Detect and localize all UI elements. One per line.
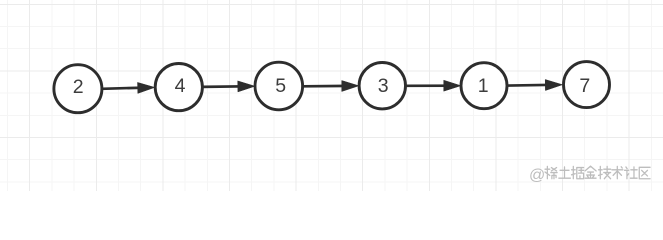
arrow 5 to 3	[303, 81, 359, 92]
node 2	[54, 65, 102, 113]
watermark @juejin community	[529, 166, 650, 184]
arrow 4 to 5	[202, 81, 255, 92]
char tu	[559, 167, 571, 178]
node 7	[564, 62, 610, 108]
char xi	[545, 166, 557, 178]
svg-text:5: 5	[275, 75, 286, 97]
char qu	[639, 167, 650, 178]
svg-text:1: 1	[478, 75, 489, 97]
char she	[625, 167, 638, 179]
svg-text:3: 3	[378, 75, 389, 97]
char ji	[599, 166, 611, 178]
grid background	[0, 0, 663, 191]
node 5	[255, 62, 303, 110]
char shu	[612, 166, 623, 178]
svg-text:2: 2	[73, 76, 84, 98]
arrow 3 to 1	[406, 80, 461, 91]
svg-text:@: @	[529, 167, 545, 184]
node 3	[359, 62, 405, 108]
svg-text:7: 7	[579, 75, 590, 97]
arrow 2 to 4	[102, 82, 155, 93]
arrow 1 to 7	[507, 80, 562, 91]
svg-text:4: 4	[175, 75, 186, 97]
node 1	[461, 63, 507, 109]
char jue	[572, 166, 584, 178]
char jin	[585, 166, 596, 178]
node 4	[155, 64, 202, 111]
